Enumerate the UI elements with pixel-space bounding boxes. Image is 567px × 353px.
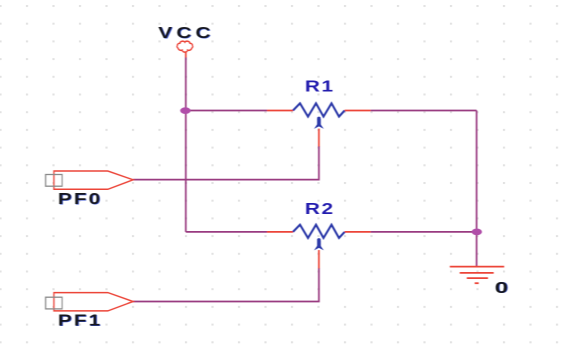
svg-text:R1: R1: [305, 77, 335, 95]
svg-text:VCC: VCC: [158, 24, 214, 42]
svg-text:0: 0: [495, 280, 508, 297]
svg-text:PF1: PF1: [58, 311, 102, 329]
svg-text:PF0: PF0: [58, 189, 102, 207]
svg-text:R2: R2: [305, 199, 335, 217]
